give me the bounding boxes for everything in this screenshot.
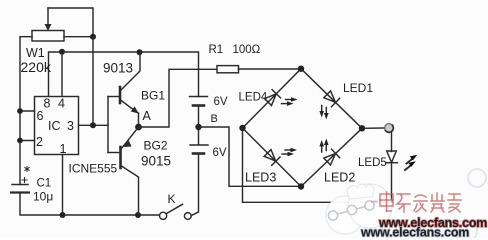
capacitor C1 polarity plus [22, 178, 27, 183]
switch K lever [167, 204, 183, 213]
svg-text:C1: C1 [37, 178, 52, 190]
watermark pseudo hanzi row [380, 192, 461, 212]
svg-text:ICNE555: ICNE555 [69, 162, 118, 176]
node: BG1 collector on supply rail [137, 49, 143, 55]
wire: LED5 cathode down [391, 163, 393, 203]
transistor Q1 BG1 base bar [119, 87, 122, 103]
svg-text:9015: 9015 [141, 154, 171, 169]
svg-text:B: B [211, 113, 218, 125]
wire: R1 to bridge top [239, 68, 302, 70]
node: pins 8/4 supply junction [59, 49, 65, 55]
battery cell 2 short plate [193, 152, 204, 155]
svg-text:LED3: LED3 [245, 171, 276, 185]
svg-text:IC: IC [48, 119, 61, 133]
svg-text:LED2: LED2 [324, 171, 355, 185]
wire: pin 8 stem to supply rail [49, 52, 63, 97]
wire: pin 3 output to base rail [79, 124, 109, 126]
watermark faint right circles [455, 169, 486, 240]
svg-text:K: K [168, 192, 176, 206]
node B battery midpoint [195, 124, 201, 130]
wire: battery negative to switch [191, 154, 198, 216]
wire: W1 right terminal to loop [64, 36, 93, 38]
svg-text:1: 1 [60, 142, 67, 156]
switch K right contact [184, 213, 191, 220]
LED5 emission arrows [405, 155, 417, 170]
node: bridge bottom vertex [298, 183, 304, 189]
svg-text:100Ω: 100Ω [233, 44, 261, 56]
ground rail [63, 214, 160, 216]
wire: base rail [107, 97, 109, 153]
LED3 emission arrows [282, 148, 297, 157]
svg-text:10μ: 10μ [33, 190, 53, 204]
wire: supply rail to battery top [62, 52, 199, 97]
potentiometer W1 wiper arrow [45, 8, 52, 31]
transistor Q2 BG2 collector [122, 166, 139, 215]
node: bridge right vertex [359, 125, 365, 131]
wire: wiper feedback loop top [48, 8, 93, 37]
LED bridge: edge top-left [243, 69, 302, 128]
node: pin 3 junction [90, 122, 96, 128]
battery cell 2 long plate [190, 144, 208, 146]
potentiometer W1 body [32, 31, 64, 42]
wire: right vertex to output jack [362, 127, 385, 129]
LED bridge: edge bottom-left [243, 128, 302, 187]
watermark logo small rings [328, 201, 374, 220]
LED bridge: edge top-right [301, 69, 362, 129]
transistor Q1 BG1 emitter with arrow [121, 100, 139, 127]
wire: pin 4 stem [61, 52, 63, 97]
svg-text:6V: 6V [214, 96, 228, 108]
LED1 emission arrows [319, 106, 328, 120]
node: bridge top vertex [298, 66, 304, 72]
svg-text:BG1: BG1 [141, 89, 165, 103]
wire: BG1 base [108, 96, 119, 98]
LED4 emission arrows [282, 97, 298, 106]
svg-text:6V: 6V [213, 147, 227, 159]
LED4 symbol [264, 90, 281, 107]
svg-text:LED4: LED4 [239, 92, 268, 104]
battery cell 1 short plate [193, 104, 204, 107]
svg-text:BG2: BG2 [144, 139, 168, 153]
LED1 symbol [323, 90, 340, 107]
svg-text:R1: R1 [209, 44, 224, 56]
wire: C1 to ground rail [20, 193, 63, 216]
svg-text:3: 3 [67, 119, 74, 133]
watermark magenta dash [371, 201, 378, 203]
battery cell 1 long plate [190, 96, 208, 98]
wire: pin 1 stem to ground rail [62, 155, 64, 216]
wire: W1 left terminal down to pins 6/2 and C1 [20, 37, 32, 185]
capacitor C1 top plate [12, 184, 28, 186]
wire: pin 6 [20, 110, 35, 112]
node: BG2 collector on ground rail [135, 212, 141, 218]
svg-text:9013: 9013 [103, 61, 133, 76]
svg-text:6: 6 [37, 109, 44, 123]
wire: pin 2 [20, 140, 35, 142]
LED5 symbol [386, 151, 398, 163]
transistor Q1 BG1 collector [121, 52, 141, 90]
svg-text:8: 8 [44, 97, 51, 111]
node A junction [135, 124, 142, 131]
svg-text:A: A [143, 109, 152, 123]
wire: jack down to LED5 [391, 132, 393, 152]
svg-text:LED5: LED5 [358, 157, 387, 169]
wire: BG2 base [108, 152, 120, 154]
node: pin 2 junction [17, 138, 23, 144]
wire: left vertex down and across to LED5 [243, 128, 392, 202]
IC U1 NE555 box [35, 97, 79, 155]
LED3 symbol [263, 149, 280, 166]
wire: node B to bridge bottom vertex [199, 127, 302, 186]
resistor R1 body [217, 66, 239, 73]
transistor Q2 BG2 base bar [119, 147, 122, 168]
node: bridge left vertex [239, 125, 245, 131]
svg-text:www.elecfans.com: www.elecfans.com [360, 226, 469, 239]
LED2 emission arrows [319, 139, 328, 153]
wire: node A to R1 riser [139, 69, 217, 127]
node: pin 6 junction [17, 108, 23, 114]
LED bridge: edge bottom-right [301, 128, 362, 186]
svg-text:LED1: LED1 [343, 81, 373, 95]
capacitor C1 asterisk mark [25, 167, 29, 172]
node: junction pot right terminal [90, 34, 96, 40]
svg-text:220k: 220k [21, 59, 52, 75]
switch K left contact [160, 212, 167, 219]
capacitor C1 bottom plate [11, 191, 29, 193]
watermark logo white discs [326, 184, 392, 234]
LED2 symbol [323, 149, 340, 166]
wire: between cells [198, 106, 200, 145]
svg-text:2: 2 [36, 135, 43, 149]
output jack terminal circle [385, 124, 394, 133]
wire: junction down to pin 3 node [92, 37, 94, 126]
node: pin 1 on ground rail [60, 212, 66, 218]
transistor Q2 BG2 emitter with arrow (PNP) [122, 127, 139, 149]
svg-text:4: 4 [58, 97, 65, 111]
svg-text:W1: W1 [26, 46, 45, 60]
